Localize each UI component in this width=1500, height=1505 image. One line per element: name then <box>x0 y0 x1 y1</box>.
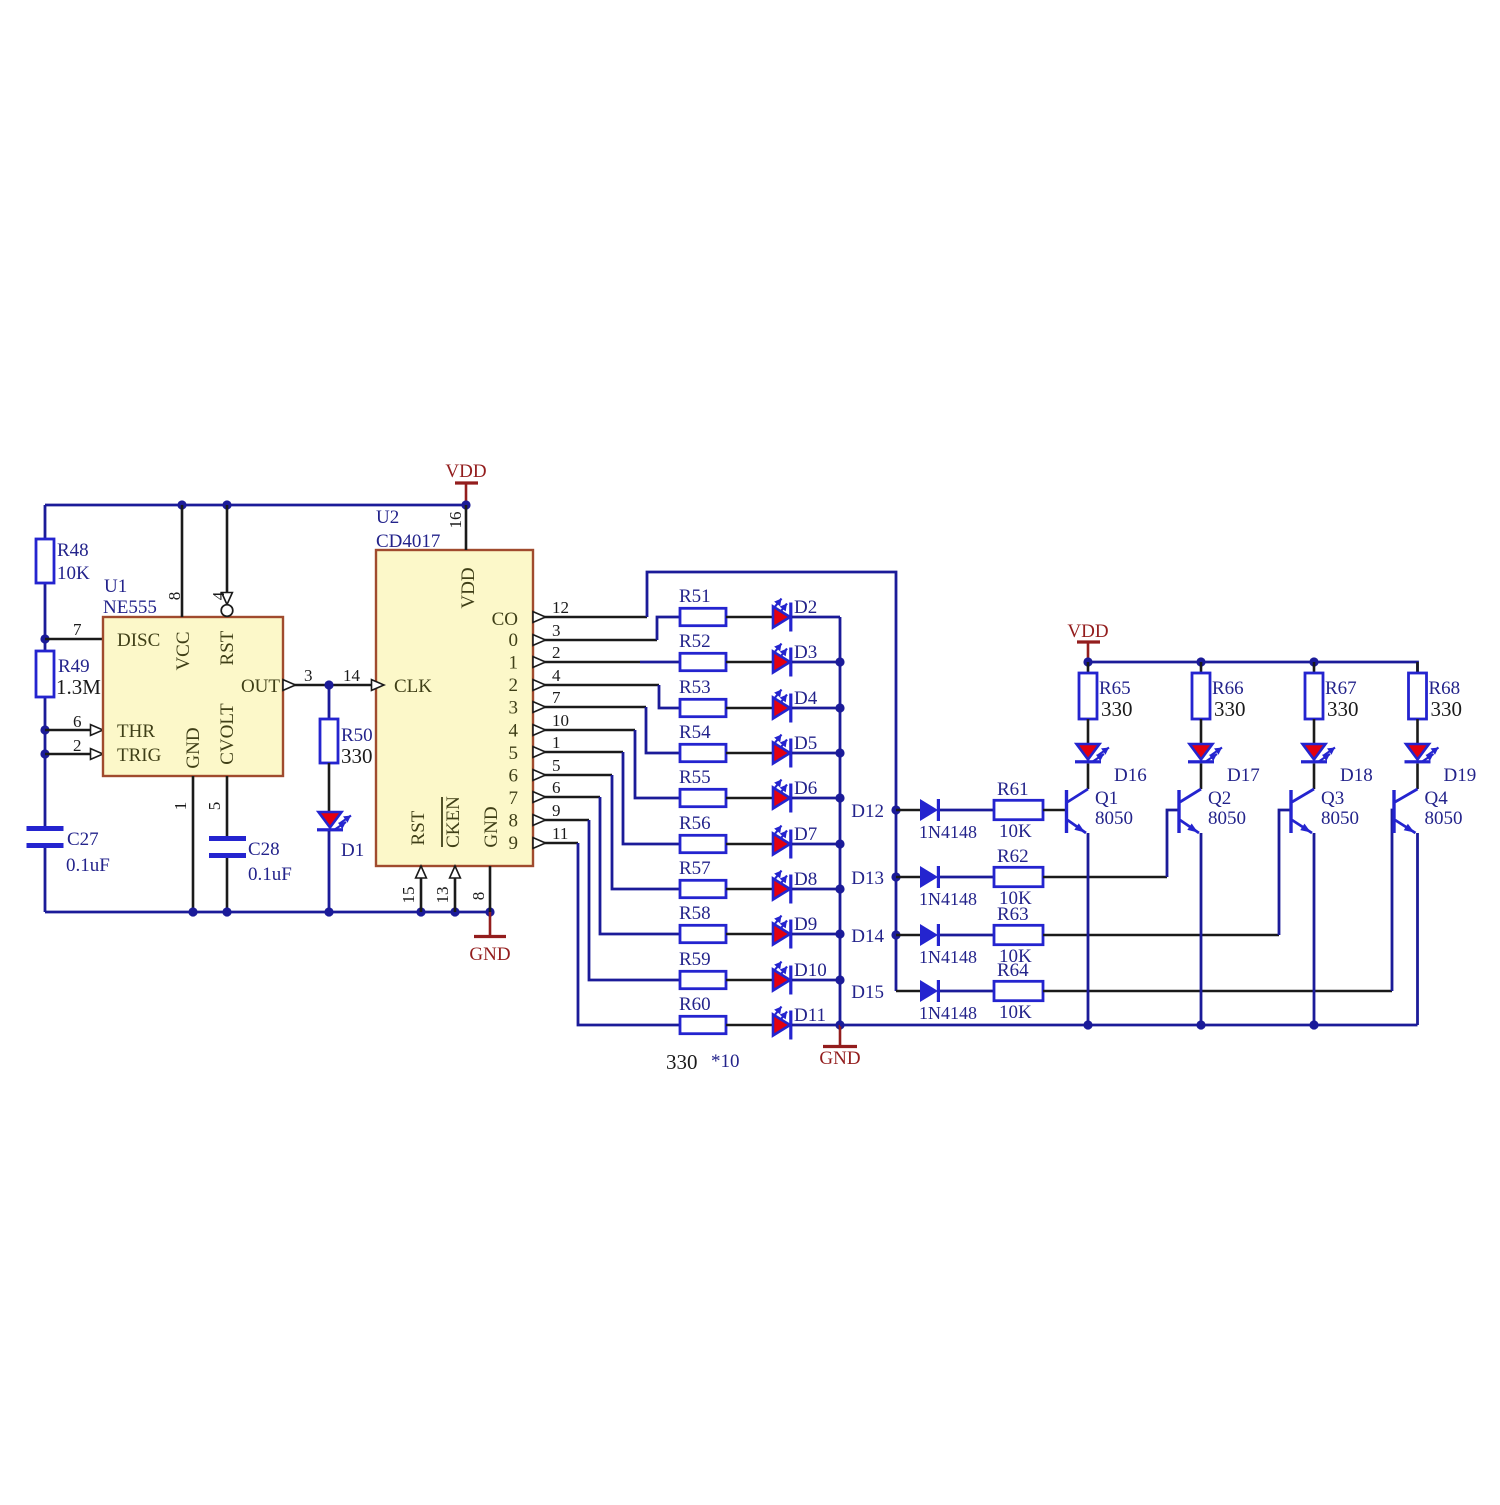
pin 10 output stub of U2 (row 5) <box>533 711 635 735</box>
resistor R53 <box>679 677 726 717</box>
resistor R66 <box>1192 662 1246 744</box>
wire LED D16 to Q1 collector <box>1087 764 1090 790</box>
wire: pin 6 jog to R58 <box>600 797 680 934</box>
svg-text:10K: 10K <box>999 1002 1032 1023</box>
svg-text:5: 5 <box>205 802 224 811</box>
svg-text:7: 7 <box>73 620 82 639</box>
svg-text:6: 6 <box>552 778 561 797</box>
wire: left vertical net (R48/R49/C27 column) <box>44 505 47 912</box>
svg-text:C28: C28 <box>248 839 280 860</box>
svg-text:D12: D12 <box>851 801 884 822</box>
wire bus to diode D14 <box>896 934 920 937</box>
svg-text:CKEN: CKEN <box>443 796 464 848</box>
svg-text:10: 10 <box>552 711 569 730</box>
svg-text:16: 16 <box>446 512 465 529</box>
svg-text:10K: 10K <box>57 563 90 584</box>
wire bus to diode D13 <box>896 876 920 879</box>
resistor R55 <box>679 767 726 807</box>
wire LED D19 to Q4 collector <box>1416 764 1419 790</box>
junction dots on LED cathode bus <box>835 657 844 1029</box>
wire LED D10 to cathode bus <box>792 979 840 982</box>
pin 2 output stub of U2 (row 2) <box>533 643 680 667</box>
svg-text:C27: C27 <box>67 829 99 850</box>
wire LED D17 to Q2 collector <box>1200 764 1203 790</box>
wire LED D6 to cathode bus <box>792 797 840 800</box>
wire: LED cathode bus <box>839 617 842 1025</box>
pin 15 RST wire of U2 <box>399 866 426 912</box>
LED D11 <box>773 1005 826 1040</box>
resistor R58 <box>679 903 726 943</box>
wire: pin 9 jog to R59 <box>589 820 680 980</box>
wire: pin 4 jog to R53 <box>659 685 680 708</box>
svg-text:VCC: VCC <box>173 631 194 670</box>
LED D9 <box>773 914 817 949</box>
svg-text:R54: R54 <box>679 722 711 743</box>
pin 7 output stub of U2 (row 4) <box>533 688 646 712</box>
pin 8 VCC wire of U1 <box>165 505 184 617</box>
pin 9 output stub of U2 (row 9) <box>533 801 589 825</box>
wire diode D12 to R61 <box>940 809 994 812</box>
svg-text:1N4148: 1N4148 <box>919 1003 977 1023</box>
LED D16 <box>1075 744 1147 786</box>
svg-text:GND: GND <box>469 944 510 965</box>
svg-text:D8: D8 <box>794 869 817 890</box>
svg-text:330: 330 <box>1431 697 1463 721</box>
wire R57 to LED D8 <box>726 888 773 891</box>
svg-text:NE555: NE555 <box>103 597 157 618</box>
wire LED D3 to cathode bus <box>792 661 840 664</box>
svg-text:VDD: VDD <box>1067 621 1108 642</box>
svg-text:330: 330 <box>1327 697 1359 721</box>
wire R54 to LED D5 <box>726 752 773 755</box>
svg-text:D15: D15 <box>851 982 884 1003</box>
wire Q3 emitter to GND rail <box>1313 833 1316 1025</box>
resistor R49 <box>36 651 101 699</box>
junction dot VDD / pin16 <box>461 500 470 509</box>
svg-text:5: 5 <box>552 756 561 775</box>
wire Q4 emitter to GND rail <box>1416 833 1419 1025</box>
transistor Q4 8050 <box>1394 788 1463 833</box>
svg-text:Q4: Q4 <box>1425 788 1449 809</box>
svg-text:R48: R48 <box>57 540 89 561</box>
svg-text:DISC: DISC <box>117 630 160 651</box>
wire LED D18 to Q3 collector <box>1313 764 1316 790</box>
svg-text:3: 3 <box>509 698 519 719</box>
svg-text:14: 14 <box>343 666 361 685</box>
svg-text:TRIG: TRIG <box>117 745 162 766</box>
resistor R65 <box>1079 662 1133 744</box>
svg-text:3: 3 <box>304 666 313 685</box>
wire: pin 10 jog to R55 <box>635 730 680 798</box>
node: OUT pin 3 wire to CLK pin 14 <box>283 666 372 690</box>
svg-text:0: 0 <box>509 630 519 651</box>
svg-text:D17: D17 <box>1227 765 1260 786</box>
svg-text:R55: R55 <box>679 767 711 788</box>
wire R58 to LED D9 <box>726 933 773 936</box>
svg-text:4: 4 <box>509 720 519 741</box>
svg-text:9: 9 <box>509 833 519 854</box>
svg-text:7: 7 <box>509 788 519 809</box>
svg-text:2: 2 <box>509 675 519 696</box>
diode D15 1N4148 <box>919 980 977 1023</box>
svg-text:GND: GND <box>183 727 204 768</box>
LED D2 <box>773 597 817 632</box>
wire: CO (pin 12) route up and over to diode bus <box>647 572 896 991</box>
wire R55 to LED D6 <box>726 797 773 800</box>
wire R51 to LED D2 <box>726 616 773 619</box>
svg-text:Q3: Q3 <box>1321 788 1344 809</box>
svg-text:R49: R49 <box>58 656 90 677</box>
svg-text:1N4148: 1N4148 <box>919 947 977 967</box>
svg-text:8: 8 <box>509 811 519 832</box>
transistor Q3 8050 <box>1291 788 1359 833</box>
svg-text:R61: R61 <box>997 779 1029 800</box>
wire bus to diode D12 <box>896 809 920 812</box>
wire R53 to LED D4 <box>726 707 773 710</box>
op-amp/timer U1 NE555 body <box>103 576 283 776</box>
svg-text:CO: CO <box>492 609 518 630</box>
svg-text:8050: 8050 <box>1321 808 1359 829</box>
LED D3 <box>773 642 817 677</box>
svg-text:D18: D18 <box>1340 765 1373 786</box>
svg-text:9: 9 <box>552 801 561 820</box>
wire: pin 7 jog to R54 <box>646 707 680 753</box>
svg-text:U2: U2 <box>376 507 399 528</box>
resistor R51 <box>679 586 726 626</box>
LED D10 <box>773 960 827 995</box>
wire R56 to LED D7 <box>726 843 773 846</box>
svg-text:D11: D11 <box>794 1005 826 1026</box>
wire: pin 3 jog to R51 <box>657 617 680 640</box>
svg-text:6: 6 <box>509 765 519 786</box>
pin 16 VDD wire of U2 <box>446 505 466 550</box>
diode D12 1N4148 <box>919 799 977 842</box>
resistor R48 <box>36 539 90 584</box>
svg-text:8: 8 <box>165 592 184 601</box>
wire Q2 emitter to GND rail <box>1200 833 1203 1025</box>
svg-text:R66: R66 <box>1212 678 1244 699</box>
pin 11 output stub of U2 (row 10) <box>533 824 578 848</box>
wire LED D2 to cathode bus <box>792 616 840 619</box>
wire: pin 1 jog to R56 <box>623 752 680 844</box>
svg-text:R60: R60 <box>679 994 711 1015</box>
junction dots on diode bus <box>891 805 900 939</box>
pin 1 GND wire of U1 <box>171 776 193 912</box>
svg-text:R67: R67 <box>1325 678 1357 699</box>
svg-text:VDD: VDD <box>458 567 479 608</box>
svg-text:R58: R58 <box>679 903 711 924</box>
svg-text:0.1uF: 0.1uF <box>248 864 292 885</box>
wire R52 to LED D3 <box>726 661 773 664</box>
ground symbol GND (LED bus) <box>819 1025 860 1069</box>
svg-text:CLK: CLK <box>394 676 432 697</box>
wire bus to diode D15 <box>896 990 920 993</box>
svg-text:1: 1 <box>552 733 561 752</box>
LED D18 <box>1301 744 1373 786</box>
svg-text:D10: D10 <box>794 960 827 981</box>
wire LED D5 to cathode bus <box>792 752 840 755</box>
wire: top VDD rail <box>45 504 466 507</box>
svg-text:D5: D5 <box>794 733 817 754</box>
wire: VDD rail to R65-R68 <box>1088 662 1418 673</box>
svg-text:1: 1 <box>171 802 190 811</box>
svg-text:VDD: VDD <box>445 461 486 482</box>
svg-text:RST: RST <box>408 810 429 845</box>
svg-text:D13: D13 <box>851 868 884 889</box>
pin 13 CKEN wire of U2 <box>433 866 460 912</box>
capacitor C28 <box>209 836 292 912</box>
node: TRIG wire (pin 2) <box>40 736 103 759</box>
junction dots on VDD rail <box>1083 657 1318 666</box>
svg-text:10K: 10K <box>999 821 1032 842</box>
wire LED D9 to cathode bus <box>792 933 840 936</box>
pin 3 output stub of U2 (row 1) <box>533 621 657 645</box>
svg-text:2: 2 <box>552 643 561 662</box>
LED D4 <box>773 688 818 723</box>
pin 8 GND wire of U2 <box>469 866 490 912</box>
svg-text:2: 2 <box>73 736 82 755</box>
svg-text:330: 330 <box>1101 697 1133 721</box>
wire diode D14 to R63 <box>940 934 994 937</box>
svg-text:R64: R64 <box>997 960 1029 981</box>
wire LED D8 to cathode bus <box>792 888 840 891</box>
svg-text:D14: D14 <box>851 926 884 947</box>
svg-text:D4: D4 <box>794 688 818 709</box>
wire: GND rail (bottom right) <box>840 1024 1418 1027</box>
junction dot at VCC pin 8 on top rail <box>177 500 186 509</box>
pin 5 CVOLT wire of U1 <box>205 776 227 836</box>
wire: pin 5 jog to R57 <box>612 775 680 889</box>
resistor R61 <box>994 779 1043 842</box>
resistor R52 <box>679 631 726 671</box>
svg-text:R53: R53 <box>679 677 711 698</box>
wire R60 to LED D11 <box>726 1024 773 1027</box>
ground symbol GND (below U2) <box>469 912 510 965</box>
resistor R50 <box>320 685 373 812</box>
resistor R64 <box>994 960 1043 1023</box>
wire R62 to Q2 base <box>1043 876 1167 879</box>
svg-text:R59: R59 <box>679 949 711 970</box>
value label 330 *10 for R51-R60 <box>666 1050 740 1074</box>
wire R64 to Q4 base <box>1043 990 1392 993</box>
power symbol VDD (top, above U2 pin 16) <box>445 461 486 505</box>
resistor R62 <box>994 846 1043 909</box>
node: THR wire (pin 6) <box>40 712 103 735</box>
svg-text:3: 3 <box>552 621 561 640</box>
svg-text:R51: R51 <box>679 586 711 607</box>
svg-text:R52: R52 <box>679 631 711 652</box>
wire diode D13 to R62 <box>940 876 994 879</box>
diode D14 1N4148 <box>919 924 977 967</box>
svg-text:6: 6 <box>73 712 82 731</box>
LED D5 <box>773 733 817 768</box>
svg-text:1: 1 <box>509 653 519 674</box>
svg-text:12: 12 <box>552 598 569 617</box>
wire R59 to LED D10 <box>726 979 773 982</box>
pin 12 output stub of U2 (row 0) <box>533 598 647 622</box>
counter U2 CD4017 body <box>376 507 533 866</box>
svg-text:8050: 8050 <box>1208 808 1246 829</box>
svg-text:8050: 8050 <box>1095 808 1133 829</box>
junction dots on bottom rail <box>188 907 494 916</box>
transistor Q2 8050 <box>1179 788 1246 833</box>
svg-text:D19: D19 <box>1444 765 1477 786</box>
svg-text:11: 11 <box>552 824 568 843</box>
svg-text:OUT: OUT <box>241 676 280 697</box>
wire LED D11 to cathode bus <box>792 1024 840 1027</box>
node: DISC wire (pin 7) <box>40 620 103 644</box>
resistor R67 <box>1305 662 1359 744</box>
pin 4 output stub of U2 (row 3) <box>533 666 659 690</box>
capacitor C27 <box>27 826 110 876</box>
svg-text:U1: U1 <box>104 576 127 597</box>
LED D7 <box>773 824 817 859</box>
svg-text:R63: R63 <box>997 904 1029 925</box>
svg-text:D6: D6 <box>794 778 817 799</box>
svg-text:1.3M: 1.3M <box>56 675 101 699</box>
svg-text:*10: *10 <box>711 1051 740 1072</box>
svg-text:330: 330 <box>341 744 373 768</box>
transistor Q1 8050 <box>1067 788 1134 833</box>
resistor R57 <box>679 858 726 898</box>
pin 14 CLK input arrow <box>372 680 385 691</box>
pin 4 RST wire of U1 with inversion bubble <box>209 505 233 616</box>
power symbol VDD (driver section) <box>1067 621 1108 662</box>
svg-text:R65: R65 <box>1099 678 1131 699</box>
wire R61 to Q1 base <box>1043 809 1065 812</box>
svg-text:330: 330 <box>666 1050 698 1074</box>
svg-text:GND: GND <box>481 806 502 847</box>
svg-text:5: 5 <box>509 743 519 764</box>
junction dot at R50 branch <box>324 680 333 689</box>
svg-text:7: 7 <box>552 688 561 707</box>
svg-text:D9: D9 <box>794 914 817 935</box>
svg-text:D2: D2 <box>794 597 817 618</box>
resistor R68 <box>1409 662 1463 744</box>
svg-text:1N4148: 1N4148 <box>919 889 977 909</box>
wire: pin 11 jog to R60 <box>578 843 680 1025</box>
svg-text:R57: R57 <box>679 858 711 879</box>
resistor R56 <box>679 813 726 853</box>
pin 5 output stub of U2 (row 7) <box>533 756 612 780</box>
svg-text:Q1: Q1 <box>1095 788 1118 809</box>
wire R63 to Q3 base <box>1043 934 1279 937</box>
LED D8 <box>773 869 817 904</box>
svg-text:R62: R62 <box>997 846 1029 867</box>
svg-text:8050: 8050 <box>1425 808 1463 829</box>
LED D19 <box>1405 744 1477 786</box>
resistor R63 <box>994 904 1043 967</box>
svg-text:15: 15 <box>399 887 418 904</box>
svg-text:D7: D7 <box>794 824 817 845</box>
resistor R59 <box>679 949 726 989</box>
svg-text:1N4148: 1N4148 <box>919 822 977 842</box>
svg-text:R68: R68 <box>1429 678 1461 699</box>
resistor R60 <box>679 994 726 1034</box>
svg-text:GND: GND <box>819 1048 860 1069</box>
junction dot at RST pin 4 on top rail <box>222 500 231 509</box>
svg-text:330: 330 <box>1214 697 1246 721</box>
svg-text:RST: RST <box>217 630 238 665</box>
LED D6 <box>773 778 817 813</box>
svg-text:4: 4 <box>552 666 561 685</box>
svg-text:0.1uF: 0.1uF <box>66 855 110 876</box>
wire LED D4 to cathode bus <box>792 707 840 710</box>
junction dots on GND rail at emitters <box>1083 1020 1318 1029</box>
svg-text:R56: R56 <box>679 813 711 834</box>
svg-text:D16: D16 <box>1114 765 1147 786</box>
wire Q1 emitter to GND rail <box>1087 833 1090 1025</box>
resistor R54 <box>679 722 726 762</box>
svg-text:THR: THR <box>117 721 155 742</box>
pin 6 output stub of U2 (row 8) <box>533 778 600 802</box>
svg-text:D3: D3 <box>794 642 817 663</box>
LED D17 <box>1188 744 1260 786</box>
svg-text:4: 4 <box>209 591 228 600</box>
wire: bottom GND rail of oscillator <box>45 911 490 914</box>
svg-text:13: 13 <box>433 887 452 904</box>
svg-text:Q2: Q2 <box>1208 788 1231 809</box>
svg-text:CVOLT: CVOLT <box>217 703 238 765</box>
svg-text:8: 8 <box>469 892 488 901</box>
svg-text:R50: R50 <box>341 725 373 746</box>
LED D1 <box>317 812 364 912</box>
diode D13 1N4148 <box>919 866 977 909</box>
svg-text:D1: D1 <box>341 840 364 861</box>
pin 1 output stub of U2 (row 6) <box>533 733 623 757</box>
wire LED D7 to cathode bus <box>792 843 840 846</box>
wire diode D15 to R64 <box>940 990 994 993</box>
